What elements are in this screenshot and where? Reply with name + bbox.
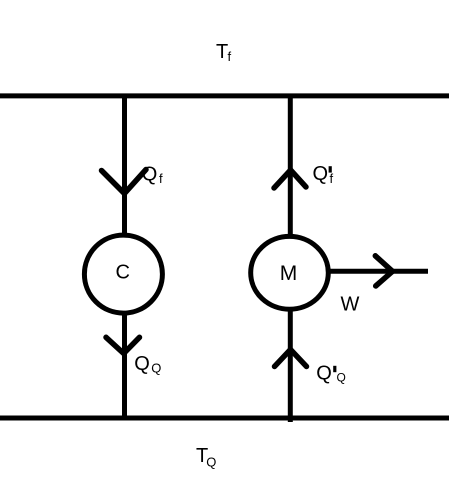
svg-text:Q: Q bbox=[206, 455, 216, 470]
svg-text:W: W bbox=[341, 294, 360, 316]
svg-text:f: f bbox=[228, 49, 232, 64]
svg-text:f: f bbox=[330, 171, 334, 186]
svg-text:C: C bbox=[116, 261, 130, 283]
svg-text:Q: Q bbox=[134, 353, 150, 375]
svg-text:Q: Q bbox=[151, 361, 161, 376]
svg-text:Q: Q bbox=[313, 163, 329, 185]
svg-text:Q: Q bbox=[142, 163, 158, 185]
svg-text:Q: Q bbox=[337, 371, 346, 385]
svg-text:M: M bbox=[280, 262, 298, 285]
svg-text:f: f bbox=[159, 171, 163, 186]
svg-text:T: T bbox=[216, 41, 228, 63]
svg-text:Q: Q bbox=[316, 363, 332, 385]
